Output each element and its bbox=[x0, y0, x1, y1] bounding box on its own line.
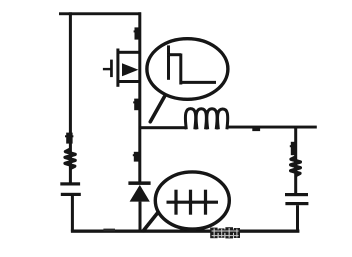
wire right rail vertical bbox=[294, 127, 297, 194]
wire C2 bottom lead bbox=[296, 205, 299, 232]
annotation callout ellipse top bbox=[147, 39, 228, 100]
label blob on output wire bbox=[252, 127, 260, 131]
inductor L1 bbox=[185, 109, 227, 130]
label blob below Q1 bbox=[133, 99, 139, 111]
label blob left of diode bbox=[133, 152, 139, 162]
transistor Q1 gate lead bbox=[103, 68, 112, 70]
transistor Q1 channel bar bbox=[116, 49, 119, 87]
transistor Q1 source stub bbox=[118, 80, 140, 83]
transistor Q1 gate bar bbox=[110, 60, 113, 78]
wire top horizontal (Vin to drain) bbox=[59, 12, 141, 15]
wire C1 bottom lead bbox=[71, 196, 74, 232]
wire bottom horizontal rail bbox=[71, 230, 300, 233]
annotation callout top tail bbox=[150, 97, 164, 122]
watermark text bottom bbox=[210, 227, 240, 238]
label blob on left rail bbox=[65, 133, 73, 144]
waveform in top callout bbox=[167, 45, 216, 84]
wire drain rail vertical bbox=[138, 12, 141, 183]
diode D1 cathode bar bbox=[128, 181, 150, 185]
wire inductor to output node bbox=[228, 126, 317, 129]
capacitor C1 top plate bbox=[60, 182, 80, 185]
label blob on drain rail top bbox=[134, 27, 140, 39]
capacitor C2 bottom plate bbox=[285, 202, 308, 205]
annotation callout bottom tail bbox=[144, 213, 158, 231]
capacitor C2 top plate bbox=[285, 193, 308, 196]
annotation callout ellipse bottom bbox=[155, 172, 229, 229]
waveform in bottom callout bbox=[167, 190, 219, 215]
resistor R1 (squiggle on left rail) bbox=[65, 149, 75, 168]
wire diode anode lead bbox=[139, 202, 142, 232]
wire left rail vertical bbox=[69, 12, 72, 183]
diode D1 triangle bbox=[130, 185, 150, 202]
wire switch node to inductor bbox=[140, 126, 186, 129]
transistor Q1 drain stub bbox=[118, 51, 140, 54]
resistor R2 (squiggle on right rail) bbox=[291, 157, 301, 176]
transistor Q1 body arrow bbox=[122, 63, 138, 76]
capacitor C1 bottom plate bbox=[61, 193, 81, 196]
watermark blip on bottom wire bbox=[103, 229, 115, 232]
label blob on right rail bbox=[290, 142, 297, 155]
